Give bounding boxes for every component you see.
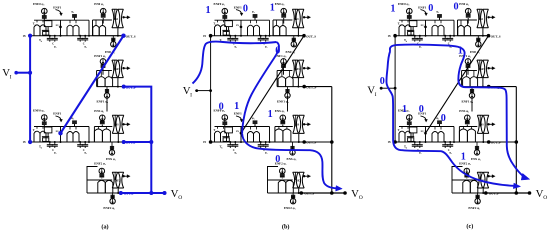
wire: source chain down U1 (panel a) — [102, 18, 104, 24]
svg-text:ENF0 φ₂: ENF0 φ₂ — [214, 2, 225, 6]
wire: bowtie to row U2 (panel b) — [297, 78, 299, 87]
wire: latch4 top-left feed (panel a) — [87, 167, 98, 181]
svg-text:0: 0 — [275, 154, 280, 165]
current source U4 (panel a) — [99, 168, 105, 174]
wire: right vertical feedback (panel a) — [150, 87, 152, 193]
wire: lower sampling row (panel a) — [30, 141, 124, 143]
current source below row U2 (panel a) — [104, 93, 109, 98]
contact hatch U4 (panel c) — [464, 173, 469, 175]
wire: hatch to T_b (top (panel a)) — [74, 17, 76, 20]
wire: arrow feed U3 (panel a) — [123, 123, 125, 125]
output arrow U4 (panel b) — [303, 175, 305, 177]
wire: ENF0 stub (bottom (panel c)) — [408, 120, 410, 121]
cross-coupled inverter pair U3 (panel c) — [477, 115, 483, 133]
svg-text:ENF0 φ₂: ENF0 φ₂ — [398, 2, 409, 6]
output arrow U3 (panel c) — [487, 123, 489, 125]
contact hatch ENF0 (top (panel c)) — [407, 15, 412, 17]
svg-text:ENS φ₁: ENS φ₁ — [471, 157, 481, 161]
svg-text:ENF2: ENF2 — [114, 179, 121, 182]
wire: bus stubs (bottom (panel c)) — [401, 127, 403, 129]
wire: gate bus (top (panel c)) — [399, 19, 454, 21]
transistor pair U2 (panel c) — [463, 77, 471, 87]
svg-text:IN: IN — [203, 35, 206, 38]
current source below row U3 (panel b) — [290, 150, 295, 155]
wire: hatch down to switch box (top (panel a)) — [43, 18, 45, 20]
current source ENF0 (bottom (panel c)) — [407, 115, 413, 121]
svg-text:ENS φ₂: ENS φ₂ — [94, 109, 104, 113]
svg-text:OUT_S: OUT_S — [491, 34, 501, 38]
node V_O (panel b) — [343, 191, 347, 195]
svg-text:ENF2: ENF2 — [478, 68, 485, 71]
svg-text:1: 1 — [268, 109, 273, 120]
capacitor C_b2 (bottom (panel b)) — [265, 142, 267, 145]
contact hatch below row U4 (panel b) — [292, 193, 294, 198]
svg-text:0: 0 — [275, 46, 280, 57]
contact hatch second switch (bottom (panel b)) — [253, 120, 258, 122]
node OUT_S (panel b) — [302, 34, 306, 38]
transistor pair U2 (panel a) — [98, 77, 106, 87]
wire: left rail U3 (panel b) — [274, 127, 276, 143]
svg-text:ENF1 φ₂: ENF1 φ₂ — [94, 54, 106, 58]
current source U2 (panel b) — [281, 59, 287, 65]
wire: output row U1 (panel a) — [93, 35, 124, 37]
blue wire: V_I stub highlight (panel a) — [15, 72, 30, 74]
svg-text:ENS φ₁: ENS φ₁ — [287, 157, 297, 161]
capacitor C_b (top (panel b)) — [260, 36, 262, 39]
wire: left rail U1 (panel c) — [457, 20, 459, 36]
contact hatch U2 (panel c) — [466, 64, 471, 66]
wire: IN_S stub to row (bottom (panel b)) — [240, 133, 242, 142]
node V_O (panel c) — [528, 191, 532, 195]
svg-text:ENF2 φ₁: ENF2 φ₁ — [94, 162, 106, 166]
contact hatch ENF0 (bottom (panel b)) — [222, 121, 227, 123]
capacitor C_b (bottom (panel c)) — [444, 142, 446, 145]
transistor pair U4 (panel c) — [463, 180, 471, 193]
output arrow U1 (panel b) — [303, 16, 305, 18]
contact hatch below row U3 (panel a) — [111, 142, 113, 149]
bent arrow toward IN_S (top (panel c)) — [421, 10, 427, 15]
svg-text:1: 1 — [234, 101, 239, 112]
wire: arrow feed U3 (panel b) — [303, 123, 305, 125]
current source U1 (panel a) — [100, 8, 106, 14]
contact hatch U1 (panel a) — [101, 14, 106, 16]
wire: arrow feed U2 (panel a) — [122, 67, 124, 69]
node junction right-mid (panel b) — [330, 140, 334, 144]
contact hatch U1 (panel b) — [281, 14, 286, 16]
svg-text:φ₁: φ₁ — [419, 45, 422, 48]
wire: right vertical feedback (panel c) — [515, 87, 517, 193]
svg-text:EN0 φ₁: EN0 φ₁ — [286, 50, 296, 54]
current source below row U4 (panel a) — [110, 199, 115, 204]
capacitor C_b (bottom (panel b)) — [260, 142, 262, 145]
svg-text:IN: IN — [23, 35, 26, 38]
wire: bowtie to row U3 (panel c) — [482, 133, 484, 142]
svg-text:ENS: ENS — [294, 124, 300, 127]
transistor pair T_b (top (panel b)) — [248, 25, 254, 36]
svg-text:φ₁: φ₁ — [54, 45, 57, 48]
wire: ENF0 stub (top (panel a)) — [43, 14, 45, 15]
cross-coupled inverter pair U1 (panel a) — [112, 9, 118, 28]
contact hatch U4 (panel a) — [99, 173, 104, 175]
current source below row U2 (panel b) — [285, 93, 290, 98]
blue wire: OUT_P to right vertical (panel a) — [124, 87, 152, 193]
blue wire: left descent through V_I zone to lower swoosh (panel c) — [386, 51, 513, 186]
wire: inter-stage chain (panel a) — [106, 98, 108, 111]
bent arrow toward IN_S (top (panel b)) — [236, 10, 242, 15]
cross-coupled inverter pair U3 (panel a) — [112, 115, 118, 133]
svg-text:OUT_P: OUT_P — [126, 141, 136, 145]
wire: left rail U1 (panel b) — [272, 20, 274, 36]
wire: hatch to T_b (bottom (panel a)) — [74, 124, 76, 127]
bent arrow toward IN_S (bottom (panel a)) — [56, 116, 62, 121]
wire: bowtie to row U3 (panel a) — [117, 133, 119, 142]
wire: source chain down U3 (panel b) — [282, 125, 284, 127]
contact hatch U2 (panel a) — [101, 64, 106, 66]
blue arrowhead at V_O (panel b) — [336, 186, 343, 192]
node OUT_P (panel b) — [302, 85, 306, 89]
switch box capacitor (bottom (panel c)) — [409, 127, 417, 133]
contact hatch U2 (panel b) — [281, 64, 286, 66]
current source U1 (panel b) — [281, 8, 287, 14]
wire: V_I stub (panel a) — [15, 72, 30, 74]
bent arrow toward IN_S (top (panel a)) — [56, 10, 62, 15]
blue wire: active path V_I to IN and under top row (panel b) — [193, 42, 277, 84]
contact hatch second switch (top (panel b)) — [253, 14, 258, 16]
wire: bowtie to row U4 (panel a) — [117, 188, 119, 193]
wire: bowtie to row U1 (panel c) — [482, 28, 484, 36]
svg-text:ENS φ₂: ENS φ₂ — [275, 109, 285, 113]
wire: output row U2 (panel b) — [277, 86, 304, 88]
wire: latch bus U2 (panel b) — [277, 70, 292, 72]
wire: input rail (panel c) — [394, 36, 396, 142]
node junction bottom (panel b) — [330, 191, 334, 195]
wire: right cell edge (bottom (panel b)) — [269, 127, 271, 143]
svg-text:ENF2 φ₁: ENF2 φ₁ — [103, 206, 115, 210]
output arrow U2 (panel a) — [122, 67, 124, 69]
contact hatch below row U4 (panel a) — [112, 193, 114, 198]
contact hatch ENF0 (top (panel b)) — [222, 15, 227, 17]
wire: ENF0 stub (bottom (panel b)) — [224, 120, 226, 121]
svg-text:OUT_P: OUT_P — [126, 85, 136, 89]
output arrow U4 (panel a) — [122, 175, 124, 177]
blue wire: bottom row highlight (panel a) — [121, 192, 165, 194]
wire: left rail U3 (panel a) — [93, 127, 95, 143]
current source U4 (panel c) — [464, 168, 470, 174]
wire: latch bus U4 (panel b) — [268, 179, 293, 181]
wire: left rail U1 (panel a) — [92, 20, 94, 36]
svg-text:0: 0 — [454, 2, 459, 13]
wire: latch bus U2 (panel a) — [97, 70, 112, 72]
current source below row U1 (panel c) — [476, 42, 481, 47]
svg-text:I: I — [10, 74, 12, 80]
wire: left rail U4 (panel a) — [86, 180, 88, 193]
svg-text:(c): (c) — [466, 223, 473, 230]
svg-text:1: 1 — [458, 46, 463, 57]
wire: IN_S stub to row (top (panel c)) — [425, 27, 427, 36]
svg-text:OUT_P: OUT_P — [306, 85, 316, 89]
wire: gate bus (bottom (panel c)) — [399, 126, 454, 128]
wire: V_I stub (panel b) — [195, 90, 210, 92]
blue wire: stage3 row highlight (panel a) — [124, 141, 152, 143]
svg-text:ENF2: ENF2 — [113, 68, 120, 71]
svg-text:1: 1 — [270, 2, 275, 13]
wire: right vertical feedback (panel b) — [331, 87, 333, 193]
svg-text:IN: IN — [388, 35, 391, 38]
wire: stage3 row extension (panel c) — [489, 141, 517, 143]
wire: right cell edge (bottom (panel c)) — [453, 127, 455, 143]
cross-coupled inverter pair U4 (panel c) — [477, 172, 483, 188]
cross-coupled inverter pair U3 (panel b) — [293, 115, 299, 133]
contact hatch U1 (panel c) — [466, 14, 471, 16]
contact hatch below row U2 (panel c) — [471, 87, 473, 93]
wire: bus stubs (top (panel b)) — [217, 20, 219, 22]
transistor pair T_b (bottom (panel c)) — [432, 132, 438, 143]
wire: source chain down U3 (panel a) — [101, 125, 103, 127]
wire: input rail (panel b) — [210, 36, 212, 142]
wire: gate bus (bottom (panel a)) — [34, 126, 89, 128]
cross-coupled inverter pair U2 (panel a) — [112, 60, 118, 78]
wire: output row U2 (panel c) — [462, 86, 489, 88]
transistor pair T_b (top (panel a)) — [67, 25, 73, 36]
svg-text:0: 0 — [219, 102, 224, 113]
wire: hatch down to switch box (bottom (panel c)) — [408, 125, 410, 127]
wire: bowtie to row U1 (panel a) — [117, 28, 119, 36]
wire: bus stubs (top (panel c)) — [401, 20, 403, 22]
svg-text:ENF0 φ₂: ENF0 φ₂ — [33, 2, 44, 6]
wire: top sampling row (panel a) — [30, 35, 124, 37]
cross-coupled inverter pair U4 (panel b) — [293, 172, 299, 188]
transistor pair U3 (panel a) — [94, 129, 102, 142]
wire: left rail U2 (panel b) — [276, 71, 278, 87]
capacitor C_a2 (bottom (panel b)) — [234, 142, 236, 145]
output arrow U4 (panel c) — [487, 175, 489, 177]
node junction bottom (panel c) — [515, 191, 519, 195]
svg-text:OUT_P: OUT_P — [491, 141, 501, 145]
wire: feedback diagonal OUT_S to IN_S (panel a) — [61, 36, 124, 134]
contact hatch below row U1 (panel a) — [112, 36, 114, 42]
wire: ENF0 stub (top (panel b)) — [224, 14, 226, 15]
contact hatch U3 (panel b) — [280, 120, 285, 122]
current source below row U1 (panel b) — [291, 42, 296, 47]
capacitor C_a2 (top (panel b)) — [234, 36, 236, 39]
wire: hatch to T_b (bottom (panel c)) — [439, 124, 441, 127]
wire: right cell edge (bottom (panel a)) — [88, 127, 90, 143]
svg-text:0: 0 — [441, 113, 446, 124]
bent arrow toward IN_S (bottom (panel b)) — [236, 116, 242, 121]
node V_O (panel a) — [163, 191, 167, 195]
svg-text:EN0 φ₂: EN0 φ₂ — [459, 2, 469, 6]
transistor pair T_b (top (panel c)) — [432, 25, 438, 36]
svg-text:ENF2 φ₁: ENF2 φ₁ — [468, 206, 480, 210]
svg-text:IN: IN — [23, 141, 26, 144]
wire: latch4 top-left feed (panel b) — [268, 167, 279, 181]
current source below row U1 (panel a) — [111, 42, 116, 47]
capacitor C_a2 (bottom (panel a)) — [54, 142, 56, 145]
current source below row U4 (panel c) — [475, 199, 480, 204]
wire: source chain down U2 (panel c) — [467, 68, 469, 75]
svg-text:OUT_S: OUT_S — [306, 34, 316, 38]
blue wire: descent along diagonal (panel b) — [242, 42, 279, 134]
current source ENF0 (bottom (panel b)) — [222, 115, 228, 121]
wire: output row U4 (panel c) — [452, 192, 486, 194]
wire: right cell edge (top (panel c)) — [453, 20, 455, 36]
node IN top (panel c) — [393, 34, 397, 38]
wire: hatch down to switch box (bottom (panel b)) — [224, 125, 226, 127]
wire: top sampling row (panel b) — [211, 35, 305, 37]
wire: bus stubs (bottom (panel a)) — [36, 127, 38, 129]
wire: arrow feed U2 (panel b) — [303, 67, 305, 69]
wire: arrow feed U1 (panel a) — [122, 16, 124, 18]
switch box capacitor (top (panel b)) — [225, 21, 233, 27]
svg-text:φ₁: φ₁ — [84, 152, 87, 155]
svg-text:ENF1 φ₁: ENF1 φ₁ — [97, 99, 109, 103]
wire: right cell edge (top (panel a)) — [88, 20, 90, 36]
contact hatch ENF0 (top (panel a)) — [42, 15, 47, 17]
svg-text:0: 0 — [243, 4, 248, 15]
output arrow U1 (panel c) — [487, 16, 489, 18]
node OUT_F (panel a) — [119, 191, 123, 195]
wire: latch bus U2 (panel c) — [462, 70, 477, 72]
transistor pair T_b (bottom (panel b)) — [248, 132, 254, 143]
current source ENF0 (bottom (panel a)) — [42, 115, 48, 121]
current source U4 (panel b) — [280, 168, 286, 174]
contact hatch below row U2 (panel a) — [106, 87, 108, 93]
output arrow U3 (panel b) — [303, 123, 305, 125]
wire: latch bus U4 (panel a) — [87, 179, 112, 181]
capacitor C_b2 (bottom (panel a)) — [84, 142, 86, 145]
transistor pair T_b (bottom (panel a)) — [67, 132, 73, 143]
wire: arrow feed U4 (panel a) — [123, 175, 125, 177]
output arrow U2 (panel b) — [303, 67, 305, 69]
contact hatch below row U1 (panel b) — [293, 36, 295, 42]
current source U1 (panel c) — [465, 8, 471, 14]
wire: IN_S stub to row (bottom (panel c)) — [425, 133, 427, 142]
wire: output row U3 (panel c) — [459, 141, 488, 143]
wire: output row U3 (panel b) — [275, 141, 304, 143]
contact hatch second switch (top (panel a)) — [72, 14, 77, 16]
switch box capacitor (top (panel c)) — [409, 21, 417, 27]
node OUT stage3 (panel b) — [302, 140, 306, 144]
contact hatch U3 (panel a) — [100, 120, 105, 122]
blue wire: input rail highlight (panel a) — [29, 36, 31, 142]
node OUT stage3 (panel c) — [487, 140, 491, 144]
svg-text:ENF1: ENF1 — [234, 5, 242, 9]
wire: output row U2 (panel a) — [97, 86, 124, 88]
current source ENF0 (top (panel b)) — [222, 8, 228, 14]
wire: bowtie to row U2 (panel c) — [482, 78, 484, 87]
svg-text:0: 0 — [380, 76, 385, 87]
capacitor C_a (top (panel a)) — [49, 36, 51, 39]
transistor pair U3 (panel b) — [275, 129, 283, 142]
current source below row U2 (panel c) — [469, 93, 474, 98]
svg-text:EN0 φ₂: EN0 φ₂ — [275, 2, 285, 6]
wire: source chain down U1 (panel b) — [283, 18, 285, 24]
node OUT_P (panel c) — [487, 85, 491, 89]
node OUT_S (panel a) — [122, 34, 126, 38]
wire: stage3 row extension (panel a) — [124, 141, 152, 143]
svg-text:φ₂: φ₂ — [252, 116, 255, 120]
wire: latch bus U1 (panel a) — [93, 19, 112, 21]
svg-text:EN1: EN1 — [294, 18, 300, 21]
wire: source chain down U3 (panel c) — [466, 125, 468, 127]
current source ENF0 (top (panel c)) — [407, 8, 413, 14]
wire: source chain down U2 (panel b) — [283, 68, 285, 75]
svg-text:EN1: EN1 — [478, 18, 484, 21]
contact hatch ENF0 (bottom (panel a)) — [42, 121, 47, 123]
wire: source chain down U4 (panel c) — [466, 177, 468, 180]
cross-coupled inverter pair U2 (panel b) — [292, 60, 298, 78]
wire: bottom output row (panel a) — [121, 192, 165, 194]
wire: arrow feed U2 (panel c) — [487, 67, 489, 69]
svg-text:ENF1: ENF1 — [418, 5, 426, 9]
contact hatch below row U2 (panel b) — [287, 87, 289, 93]
svg-text:0: 0 — [419, 104, 424, 115]
wire: latch4 top-left feed (panel c) — [452, 167, 463, 181]
svg-text:ENS: ENS — [479, 124, 485, 127]
capacitor C_a2 (bottom (panel c)) — [419, 142, 421, 145]
node IN top (panel a) — [28, 34, 32, 38]
switch box capacitor (top (panel a)) — [44, 21, 52, 27]
wire: bowtie to row U4 (panel b) — [298, 188, 300, 193]
wire: arrow feed U4 (panel c) — [488, 175, 490, 177]
capacitor C_b2 (top (panel a)) — [84, 36, 86, 39]
svg-text:φ₁: φ₁ — [84, 45, 87, 48]
capacitor C_a (bottom (panel c)) — [414, 142, 416, 145]
wire: left rail U4 (panel c) — [451, 180, 453, 193]
svg-text:ENF2: ENF2 — [294, 179, 301, 182]
svg-text:ENS φ₁: ENS φ₁ — [106, 157, 116, 161]
switch box capacitor (bottom (panel a)) — [44, 127, 52, 133]
wire: OUT_P row extension (panel a) — [124, 86, 152, 88]
capacitor C_b (top (panel a)) — [79, 36, 81, 39]
wire: arrow feed U1 (panel b) — [303, 16, 305, 18]
svg-text:ENS φ₂: ENS φ₂ — [459, 109, 469, 113]
wire: bottom output row (panel b) — [301, 192, 345, 194]
svg-text:φ₂: φ₂ — [436, 10, 439, 14]
cross-coupled inverter pair U4 (panel a) — [112, 172, 118, 188]
wire: bus stubs (top (panel a)) — [36, 20, 38, 22]
svg-text:1: 1 — [390, 3, 395, 14]
current source below row U4 (panel b) — [290, 199, 295, 204]
cross-coupled inverter pair U1 (panel b) — [292, 9, 298, 28]
capacitor C_a (top (panel b)) — [229, 36, 231, 39]
blue arrowhead upper V_O path (panel c) — [521, 173, 530, 180]
contact hatch second switch (bottom (panel a)) — [72, 120, 77, 122]
node junction right-mid (panel c) — [515, 140, 519, 144]
blue arrowhead lower V_O path (panel c) — [513, 183, 520, 189]
wire: source chain down U4 (panel b) — [281, 177, 283, 180]
wire: left rail U2 (panel a) — [96, 71, 98, 87]
wire: feedback diagonal OUT_S to IN_S (panel c) — [426, 36, 489, 134]
wire: bottom output row (panel c) — [486, 192, 530, 194]
node OUT_P (panel a) — [122, 85, 126, 89]
svg-text:IN: IN — [388, 141, 391, 144]
node IN bottom (panel a) — [28, 140, 32, 144]
contact hatch second switch (top (panel c)) — [437, 14, 442, 16]
contact hatch second switch (bottom (panel c)) — [437, 120, 442, 122]
svg-text:(a): (a) — [101, 223, 108, 230]
wire: source chain down U4 (panel a) — [101, 177, 103, 180]
wire: stage3 row extension (panel b) — [304, 141, 332, 143]
current source below row U3 (panel a) — [109, 150, 114, 155]
wire: bus stubs (bottom (panel b)) — [217, 127, 219, 129]
node IN bottom (panel b) — [209, 140, 213, 144]
contact hatch U3 (panel c) — [465, 120, 470, 122]
wire: IN_S stub to row (top (panel b)) — [240, 27, 242, 36]
svg-text:EN0 φ₂: EN0 φ₂ — [94, 2, 104, 6]
wire: latch bus U4 (panel c) — [452, 179, 477, 181]
wire: hatch down to switch box (top (panel c)) — [408, 18, 410, 20]
